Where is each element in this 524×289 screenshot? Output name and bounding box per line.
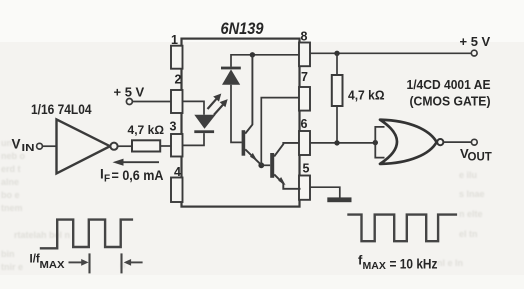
node VOUT terminal bbox=[471, 139, 477, 145]
node junction R2 bottom on pin6 wire bbox=[334, 140, 339, 145]
node junction Q1 emitter / Q2 base / pin7 bbox=[258, 162, 264, 168]
label 6N139 bbox=[221, 20, 265, 38]
svg-text:4: 4 bbox=[174, 165, 181, 179]
pin 7 bbox=[299, 70, 310, 111]
transistor Q2 emitter with arrow to pin 5 bbox=[274, 174, 300, 188]
op-amp U2 inverter 74L04 triangle bbox=[57, 119, 118, 173]
svg-text:erd t: erd t bbox=[1, 164, 21, 174]
LED D1 (emitter) bbox=[194, 115, 215, 133]
pin 8 bbox=[299, 30, 310, 67]
svg-text:1/4CD 4001 AE: 1/4CD 4001 AE bbox=[407, 77, 491, 92]
node junction NOR input bbox=[373, 140, 378, 145]
svg-text:alne: alne bbox=[1, 177, 19, 187]
pin 5 bbox=[299, 162, 310, 200]
svg-text:I/f: I/f bbox=[30, 254, 40, 266]
svg-text:F: F bbox=[104, 174, 110, 185]
current arrow IF bbox=[113, 159, 160, 166]
svg-text:n elte: n elte bbox=[459, 209, 483, 219]
wire VIN to inverter bbox=[42, 145, 56, 147]
pin 1 bbox=[171, 33, 183, 69]
svg-text:bo e: bo e bbox=[1, 190, 20, 200]
svg-text:V: V bbox=[12, 136, 21, 151]
light arrow 2 bbox=[214, 99, 228, 115]
pin 6 bbox=[299, 117, 310, 155]
svg-text:tnir e: tnir e bbox=[1, 262, 23, 272]
wire pin 5 to ground bbox=[310, 187, 340, 197]
bleed-through faint text bbox=[1, 138, 485, 272]
node junction resistor R2 top bbox=[334, 51, 339, 56]
label 1/16 74L04 bbox=[31, 102, 92, 117]
period arrow right bbox=[69, 259, 89, 266]
wire inverter to resistor R1 bbox=[118, 145, 132, 147]
svg-text:4,7 kΩ: 4,7 kΩ bbox=[128, 125, 165, 137]
svg-text:3: 3 bbox=[170, 120, 177, 134]
svg-text:+ 5 V: + 5 V bbox=[460, 34, 491, 49]
svg-text:el tn: el tn bbox=[459, 229, 478, 239]
wire NOR output to VOUT bbox=[444, 141, 472, 143]
pin 4 bbox=[171, 165, 183, 202]
svg-text:4,7 kΩ: 4,7 kΩ bbox=[348, 89, 385, 103]
svg-text:2: 2 bbox=[175, 73, 182, 87]
light arrow 1 bbox=[208, 94, 222, 110]
label IF = 0,6 mA bbox=[100, 167, 164, 185]
wire +5V to pin 2 bbox=[132, 101, 171, 103]
svg-text:MAX: MAX bbox=[363, 260, 386, 272]
wire T1 collector to top rail bbox=[245, 55, 252, 134]
transistor Q1 base bar bbox=[242, 130, 246, 156]
svg-text:+ 5 V: + 5 V bbox=[114, 85, 145, 100]
wire photodiode anode to T1 base bbox=[231, 85, 242, 143]
svg-text:8: 8 bbox=[301, 30, 308, 44]
wire pin 8 to +5V rail right bbox=[310, 52, 471, 54]
node +5V terminal left bbox=[114, 85, 145, 105]
transistor Q1 emitter with arrow bbox=[245, 149, 261, 164]
gate U3 NOR 4001 bbox=[380, 120, 443, 164]
wire resistor R1 to pin 3 bbox=[160, 145, 171, 147]
wire pin 7 to Q2 base node bbox=[261, 98, 299, 166]
svg-text:6N139: 6N139 bbox=[221, 20, 265, 38]
svg-text:5: 5 bbox=[303, 162, 310, 176]
label fMAX = 10 kHz bbox=[358, 253, 438, 273]
period arrow left bbox=[124, 259, 143, 266]
svg-text:6: 6 bbox=[301, 117, 308, 131]
wire R2 top bbox=[336, 53, 338, 75]
pin 2 bbox=[171, 73, 183, 114]
pin 3 bbox=[170, 120, 183, 157]
IC U1 6N139 optocoupler body bbox=[182, 39, 300, 207]
wire R2 bottom to pin6 net bbox=[336, 106, 338, 143]
transistor Q2 base bar bbox=[270, 153, 274, 178]
svg-text:e ilu: e ilu bbox=[459, 170, 477, 180]
wire pin 2 to LED anode bbox=[183, 101, 205, 114]
svg-text:1: 1 bbox=[171, 33, 178, 47]
svg-text:1/16 74L04: 1/16 74L04 bbox=[31, 102, 92, 117]
label 1/fMAX bbox=[30, 254, 65, 272]
period tick marks bbox=[90, 253, 122, 273]
label VOUT bbox=[460, 146, 492, 164]
svg-text:MAX: MAX bbox=[40, 259, 65, 271]
node junction at top rail bbox=[250, 52, 255, 57]
wire node to Q2 base bbox=[261, 164, 270, 166]
input square waveform bbox=[40, 220, 133, 249]
wire internal top rail pin8 to photodiode bbox=[231, 55, 299, 67]
label 1/4CD 4001 AE (CMOS GATE) bbox=[407, 77, 491, 109]
svg-text:nl e ln: nl e ln bbox=[437, 258, 463, 268]
wire input bracket tying both NOR inputs bbox=[375, 127, 384, 158]
wire pin 6 to NOR input bbox=[310, 142, 375, 144]
svg-text:rtatelah bel n: rtatelah bel n bbox=[14, 230, 70, 240]
node VIN terminal bbox=[37, 143, 43, 149]
photodiode D2 (detector) bbox=[221, 67, 241, 85]
svg-text:OUT: OUT bbox=[468, 152, 492, 164]
svg-text:IN: IN bbox=[22, 143, 35, 154]
transistor Q2 collector to pin 6 bbox=[274, 143, 299, 157]
svg-text:s lnae: s lnae bbox=[459, 189, 485, 199]
svg-text:tnem: tnem bbox=[1, 203, 23, 213]
output square waveform bbox=[347, 215, 457, 242]
resistor R2 4,7 kOhm bbox=[332, 75, 385, 106]
svg-text:= 10 kHz: = 10 kHz bbox=[390, 257, 438, 272]
label VIN bbox=[12, 136, 35, 154]
resistor R1 4,7 kOhm bbox=[128, 125, 165, 152]
node +5V terminal right bbox=[460, 34, 491, 56]
ground bbox=[327, 197, 351, 202]
wire LED cathode to pin 3 bbox=[183, 133, 204, 145]
svg-text:7: 7 bbox=[301, 70, 308, 84]
svg-text:(CMOS GATE): (CMOS GATE) bbox=[410, 94, 491, 109]
svg-text:= 0,6 mA: = 0,6 mA bbox=[112, 168, 164, 183]
svg-text:bin: bin bbox=[1, 249, 15, 259]
